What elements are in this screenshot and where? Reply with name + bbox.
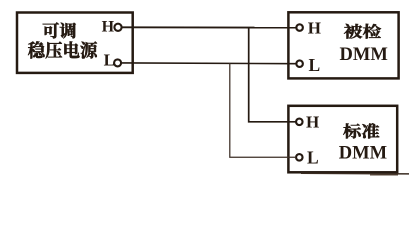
svg-text:H: H bbox=[306, 113, 319, 132]
svg-text:H: H bbox=[102, 19, 115, 36]
terminal PS-L bbox=[114, 59, 121, 66]
label 可调 (PS line 1) bbox=[43, 22, 76, 38]
box PS: adjustable regulated power supply (可调稳压电源) bbox=[17, 13, 133, 73]
terminal PS-H bbox=[114, 24, 121, 31]
svg-text:H: H bbox=[308, 19, 321, 38]
label 标准 bbox=[343, 123, 379, 138]
wire L-branch: junction on wire L down and across to STD-L bbox=[230, 63, 296, 157]
wire H: PS-H to DUT-H bbox=[122, 26, 296, 28]
pin label H (PS) bbox=[102, 19, 115, 36]
pin label H (STD) bbox=[306, 113, 319, 132]
box STD: standard DMM (标准 DMM) bbox=[288, 106, 397, 173]
terminal STD-H bbox=[296, 119, 303, 126]
terminal STD-L bbox=[296, 154, 303, 161]
box DUT: DMM under test (被检 DMM) bbox=[288, 12, 398, 78]
svg-text:L: L bbox=[309, 55, 321, 75]
label DMM (DUT) bbox=[340, 45, 388, 65]
pin label L (PS) bbox=[104, 50, 115, 69]
pin label H (DUT) bbox=[308, 19, 321, 38]
label DMM (STD) bbox=[339, 143, 387, 163]
scan artifact: doubled bottom border under STD box bbox=[301, 173, 409, 175]
terminal DUT-H bbox=[296, 24, 303, 31]
label 被检 bbox=[344, 24, 381, 39]
label 稳压电源 (PS line 2) bbox=[28, 41, 97, 58]
wire L: PS-L to DUT-L bbox=[121, 62, 296, 65]
svg-text:DMM: DMM bbox=[340, 45, 388, 65]
svg-text:L: L bbox=[104, 50, 115, 69]
wire H-branch: junction on wire H down and across to STD-H bbox=[249, 27, 296, 121]
svg-text:L: L bbox=[307, 148, 319, 168]
pin label L (STD) bbox=[307, 148, 319, 168]
svg-text:DMM: DMM bbox=[339, 143, 387, 163]
pin label L (DUT) bbox=[309, 55, 321, 75]
terminal DUT-L bbox=[296, 60, 303, 66]
